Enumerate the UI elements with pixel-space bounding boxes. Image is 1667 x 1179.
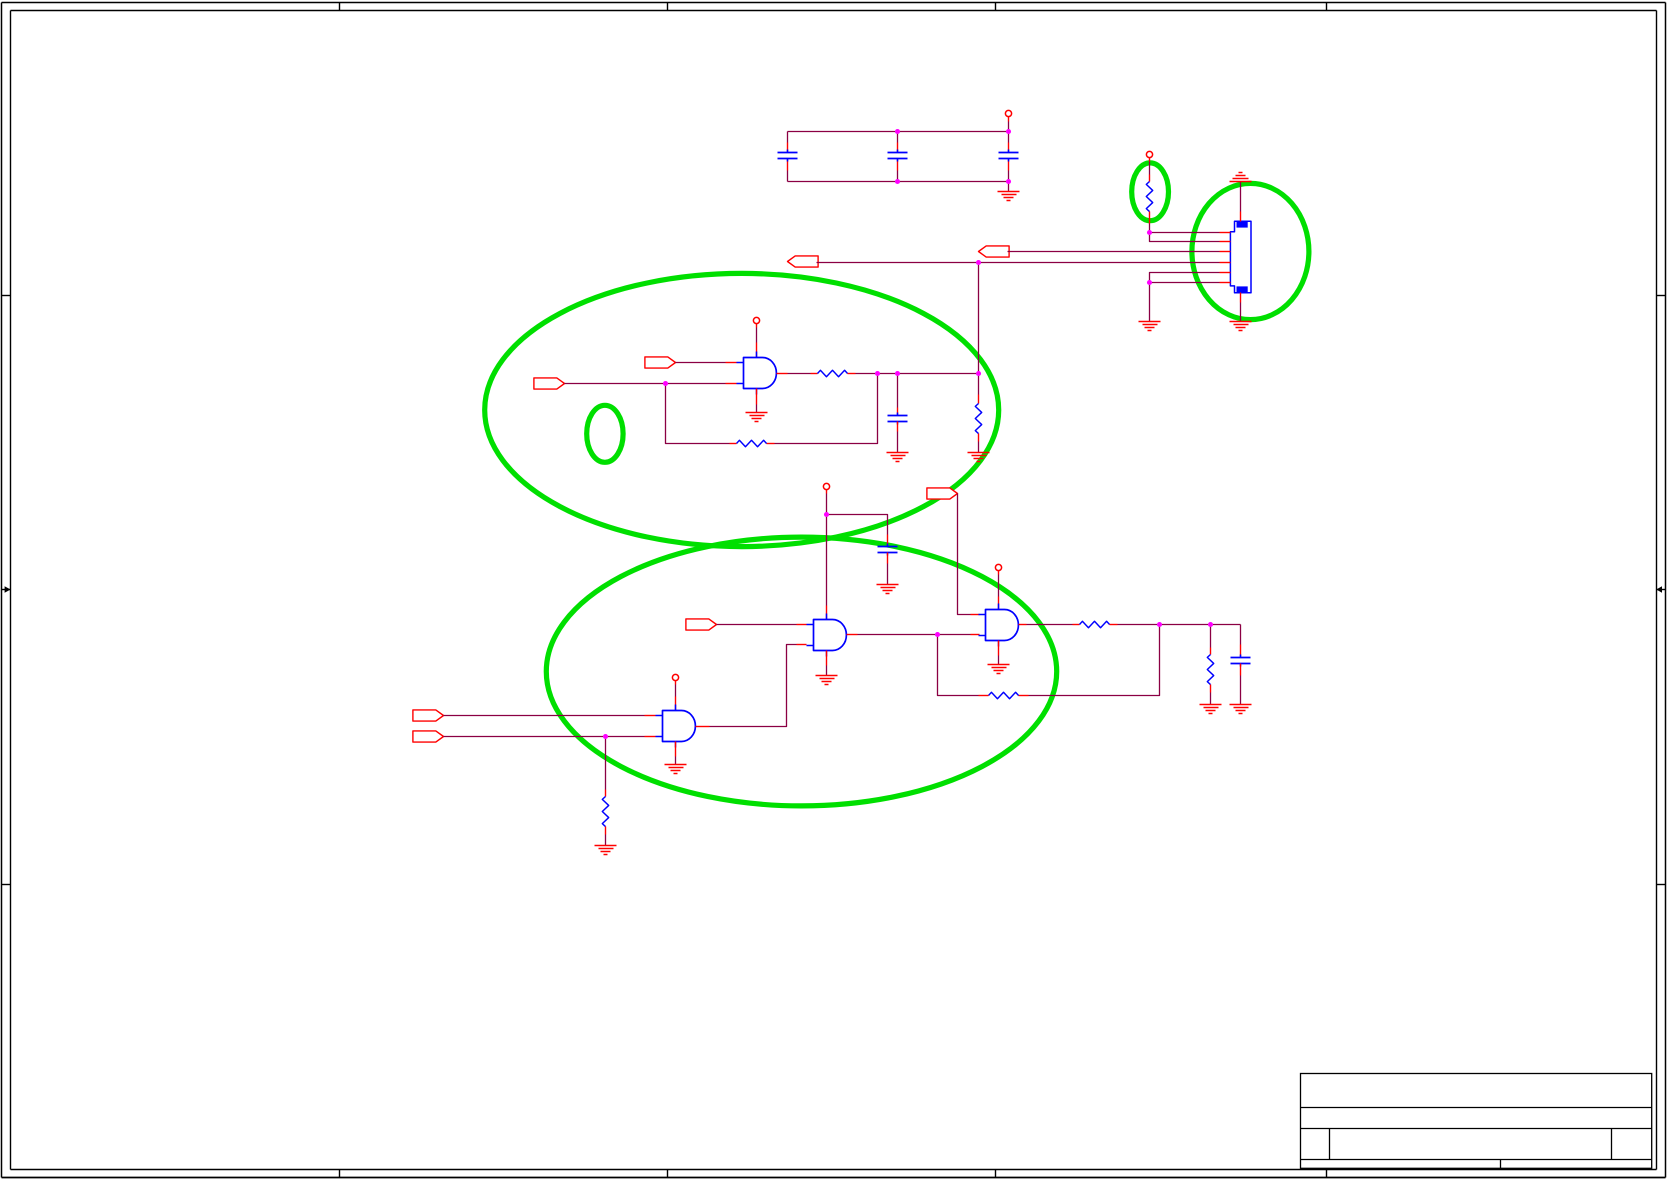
- ground GND3 inverted above connector: [1230, 173, 1252, 182]
- and-gate U2: [656, 705, 696, 748]
- power terminal VCC1: [1005, 110, 1011, 131]
- connector J1 body: [1230, 221, 1251, 292]
- wire VCC5 node to C5: [827, 515, 888, 535]
- wire port IN-C to U2 input1: [444, 715, 656, 717]
- border zone ticks right: [1657, 296, 1666, 885]
- and-gate U1: [737, 352, 777, 395]
- connector J1 left pins: [1220, 233, 1231, 283]
- capacitor C1: [778, 132, 798, 182]
- port IN-E: [686, 619, 717, 630]
- ground GND4: [1230, 322, 1252, 331]
- resistor R5 to ground from input node: [595, 737, 617, 855]
- capacitor C3: [999, 132, 1019, 182]
- wire port IN-D to U2 input2: [444, 736, 656, 738]
- green highlight ellipse circuit1: [485, 273, 999, 546]
- border zone ticks top: [340, 3, 1327, 11]
- border center arrow right: [1656, 586, 1665, 592]
- wire feedback to input node: [666, 384, 730, 444]
- wire port IN-E to U3 input1: [717, 624, 807, 626]
- wire R2 to node: [856, 373, 979, 375]
- wire connector pin6: [1150, 282, 1220, 284]
- wire port to connector pin4: [817, 262, 1220, 264]
- port IN-C: [413, 710, 444, 721]
- ground GND6 below U2: [665, 742, 687, 774]
- wire port IN-B to U1 input2: [565, 383, 737, 385]
- port IN-D: [413, 731, 444, 742]
- power terminal VCC3: [753, 317, 759, 357]
- wire feedback down from output node: [1029, 625, 1160, 696]
- wire feedback to U4 input2 node: [938, 635, 979, 696]
- wire VCC5 node to U3 power pin: [826, 515, 828, 620]
- wire U3 output to U4 input2: [847, 634, 980, 636]
- wire R6 to output node: [1118, 624, 1241, 626]
- junction dots connector nets: [976, 230, 1152, 285]
- resistor R1: [1146, 175, 1152, 233]
- resistor R7 feedback: [979, 692, 1029, 698]
- wire port IN-F to U4 input1: [958, 494, 980, 615]
- wire port to connector pin3: [1008, 251, 1220, 253]
- ground GND1: [998, 182, 1020, 201]
- power terminal VCC5: [823, 483, 829, 514]
- power terminal VCC4: [672, 674, 678, 710]
- junction dots circuit2: [603, 512, 1213, 739]
- wire U2 output to U3 input2: [696, 645, 807, 727]
- border zone ticks left: [2, 296, 11, 885]
- power terminal VCC6: [995, 564, 1001, 609]
- ground GND7: [877, 585, 899, 594]
- resistor R4 to ground: [968, 374, 990, 462]
- border center arrow left: [2, 586, 11, 592]
- power terminal VCC2: [1146, 151, 1152, 174]
- ground GND9 below U4: [988, 641, 1010, 674]
- capacitor C6 to ground: [1230, 625, 1252, 714]
- connector J1 shield pin top: [1240, 182, 1242, 222]
- title block: [1301, 1074, 1652, 1169]
- ground GND5 below U1: [746, 389, 768, 422]
- wire node down from pin4 net: [978, 263, 980, 374]
- junction dots capacitor bank: [895, 129, 1011, 184]
- wire feedback down from node: [775, 374, 878, 444]
- port DM net flag: [788, 256, 819, 267]
- and-gate U4: [979, 604, 1019, 647]
- port DP net flag: [979, 246, 1010, 257]
- green highlight ellipse R1: [1132, 163, 1169, 221]
- ground GND2: [1139, 283, 1161, 331]
- wire port IN-A to U1 input1: [676, 362, 737, 364]
- wire connector pin5 elbow: [1150, 273, 1220, 283]
- border zone ticks bottom: [340, 1170, 1327, 1178]
- port IN-A: [645, 357, 676, 368]
- capacitor C5 decoupling: [878, 535, 898, 585]
- wire U4 output: [1019, 624, 1073, 626]
- port IN-B: [534, 378, 565, 389]
- green highlight small ellipse: [587, 405, 623, 462]
- wire junction to connector pin2: [1150, 233, 1220, 242]
- resistor R6: [1073, 621, 1118, 627]
- capacitor C4 to ground: [887, 374, 909, 462]
- green highlight ellipse connector: [1192, 183, 1309, 319]
- resistor R8 to ground: [1200, 625, 1222, 714]
- wire R1 to connector pin1: [1150, 232, 1220, 234]
- capacitor C2: [888, 132, 908, 182]
- resistor R2: [811, 370, 856, 376]
- wire bottom rail of capacitor bank: [788, 181, 1009, 183]
- port IN-F top: [927, 488, 958, 499]
- wire U1 output: [777, 373, 811, 375]
- wire top rail of capacitor bank: [788, 131, 1009, 133]
- connector J1 shield pin bottom: [1240, 293, 1242, 322]
- green highlight ellipse circuit2: [546, 537, 1056, 806]
- ground GND8 below U3: [816, 651, 838, 685]
- junction dots circuit1: [663, 371, 981, 386]
- resistor R3 feedback: [730, 440, 775, 446]
- and-gate U3: [807, 614, 847, 657]
